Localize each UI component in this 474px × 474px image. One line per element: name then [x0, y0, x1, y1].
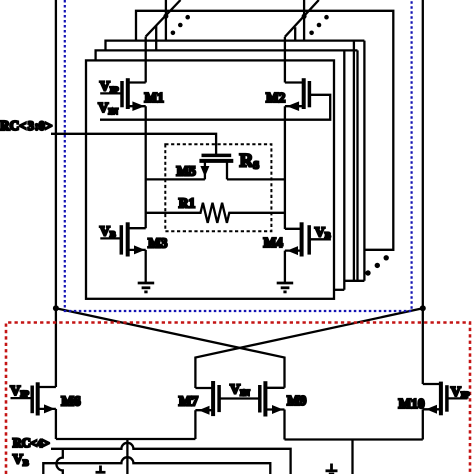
- wire M9 source down: [283, 410, 285, 440]
- node right bus junction: [302, 14, 307, 19]
- wire M10 source stub: [423, 408, 443, 410]
- wire M3 gate lead (VB): [100, 237, 121, 239]
- wire M4 drain stub: [285, 228, 303, 230]
- wire M5 right link: [227, 178, 285, 180]
- resistor R1: [146, 203, 285, 223]
- partial device stub left (cut off): [96, 466, 106, 473]
- transistor M2 gate bar: [308, 81, 312, 107]
- wire bus diagonal right: [285, 0, 319, 37]
- transistor M6 gate bar: [30, 386, 34, 414]
- svg-text:VIP: VIP: [451, 385, 470, 400]
- wire M2 source vertical (right degeneration node): [284, 106, 286, 229]
- wire M3 source stub: [126, 249, 146, 251]
- arrow M2 source: [287, 101, 299, 111]
- wire M2 drain stub: [285, 81, 305, 83]
- dashed selector box (M5/Rs): [165, 144, 271, 231]
- transistor M9 gate bar: [258, 385, 262, 413]
- transistor M5 channel bar: [199, 159, 233, 163]
- wire box3 left output stub: [165, 0, 167, 41]
- svg-text:M3: M3: [148, 236, 168, 251]
- svg-text:M6: M6: [61, 393, 81, 408]
- node left bus junction: [163, 14, 168, 19]
- arrow M4 source: [287, 246, 298, 255]
- wire M1 drain stub: [127, 81, 146, 83]
- wire VB bus (hops over tail1): [43, 457, 270, 474]
- wire tail link M6-M7 sources: [56, 438, 196, 440]
- transistor M10 channel bar: [439, 382, 443, 416]
- wire tail link M9-M10 sources: [285, 438, 423, 440]
- wire M9 drain stub: [264, 387, 285, 389]
- wire RC<4> branch with hop over VB: [56, 449, 62, 474]
- fixed-stage boundary (red dotted box): [6, 323, 470, 474]
- arrow M7 source: [199, 406, 210, 415]
- wire M10 source down: [422, 409, 424, 439]
- wire M5 left link: [146, 178, 205, 180]
- arrow M1 source: [132, 101, 144, 111]
- transistor M3 gate bar: [120, 225, 124, 254]
- ellipsis dots upper-left: [171, 15, 190, 35]
- arrow M6 source: [44, 404, 55, 413]
- node right rail junction: [420, 305, 426, 311]
- wire M2 drain vertical: [284, 37, 286, 83]
- transistor M7 gate bar: [217, 385, 221, 412]
- wire M3 drain stub: [126, 227, 146, 229]
- svg-text:VIP: VIP: [10, 384, 29, 399]
- wire M7 source stub: [195, 409, 214, 411]
- svg-text:M9: M9: [287, 393, 307, 408]
- wire box2 left output stub: [155, 26, 157, 51]
- unit cell box 3 output rail B: [363, 41, 365, 281]
- wire M1 source stub: [127, 105, 146, 107]
- arrow M5 (down): [200, 166, 209, 177]
- wire tail1 vertical: [126, 439, 128, 474]
- transistor M4 channel bar: [300, 222, 304, 256]
- wire tail2 vertical: [351, 440, 353, 474]
- svg-text:VB: VB: [100, 224, 116, 239]
- wire M4 source to ground: [284, 251, 286, 283]
- transistor M1 channel bar: [126, 78, 130, 109]
- wire M5 left terminal: [204, 161, 206, 180]
- transistor M10 gate bar: [445, 385, 449, 412]
- svg-text:M4: M4: [264, 235, 284, 250]
- unit cell box 1 (front cell): [86, 60, 334, 298]
- node left rail junction: [53, 305, 59, 311]
- wire M6 source stub: [36, 408, 56, 410]
- unit cell box 3 top/left: [106, 41, 365, 51]
- wire RC<4> bus (hops over tail1): [51, 443, 291, 474]
- svg-text:RC<4>: RC<4>: [13, 436, 50, 450]
- transistor M2 channel bar: [302, 78, 306, 109]
- unit cell box 2 right edge: [343, 50, 345, 289]
- wire box3 right output stub: [303, 0, 305, 41]
- partial device stub right (cut off): [326, 464, 338, 474]
- transistor M9 channel bar: [263, 381, 267, 416]
- wire M7 drain stub: [195, 387, 214, 389]
- unit cell box 3 bottom edge: [344, 280, 364, 282]
- arrow M10 source: [426, 405, 437, 414]
- wire cross-couple diagonal left-rail to M9 drain: [56, 308, 285, 388]
- wire M1 source vertical (left degeneration node): [145, 106, 147, 228]
- ground (M3): [138, 283, 155, 292]
- transistor M4 gate bar: [307, 225, 311, 254]
- arrow M3 source: [134, 245, 145, 254]
- svg-text:VIN: VIN: [230, 383, 250, 398]
- wire M2 source stub: [285, 105, 305, 107]
- wire M9 source stub: [264, 408, 285, 410]
- transistor M7 channel bar: [211, 381, 215, 416]
- wire M5 right terminal: [226, 161, 228, 180]
- unit cell box 4 (backmost, Nth cell): [136, 11, 393, 250]
- wire left output rail: [55, 0, 57, 387]
- svg-text:M2: M2: [266, 90, 286, 105]
- svg-text:M7: M7: [179, 393, 199, 408]
- ground (M4): [277, 283, 294, 292]
- transistor M1 gate bar: [120, 81, 124, 107]
- unit cell box 2 bottom edge: [334, 289, 344, 291]
- ellipsis dots lower-right of box stack: [365, 255, 389, 276]
- cell-array boundary (blue dotted box): [65, 0, 412, 311]
- transistor M5 gate bar: [202, 154, 232, 158]
- transistor M6 channel bar: [36, 382, 40, 415]
- svg-text:RC<3:0>: RC<3:0>: [0, 118, 52, 133]
- wire M10 drain stub: [423, 383, 443, 385]
- wire cross-couple diagonal right-rail to M7 drain: [195, 308, 422, 388]
- wire M4 source stub: [285, 249, 303, 251]
- wire bus diagonal left (cell outputs to array): [146, 0, 181, 37]
- wire M7 source down: [194, 410, 196, 439]
- unit cell box 2 top/left: [96, 50, 358, 60]
- wire RC<3:0> bus to M5 gate: [51, 134, 216, 156]
- svg-text:VB: VB: [315, 225, 331, 240]
- svg-text:RS: RS: [240, 151, 260, 172]
- wire M3 source to ground: [145, 250, 147, 283]
- ellipsis dots upper-right: [309, 15, 329, 35]
- svg-text:M5: M5: [177, 164, 197, 179]
- svg-text:VIN: VIN: [98, 101, 118, 116]
- wire box2 right output stub: [294, 27, 296, 40]
- wire M1 gate lead (VIP): [100, 92, 122, 94]
- wire M1 drain vertical: [145, 37, 147, 83]
- svg-text:R1: R1: [179, 195, 195, 210]
- unit cell box 3 right edge: [353, 41, 355, 281]
- wire M10 gate lead (VIP): [447, 397, 468, 399]
- transistor M3 channel bar: [126, 222, 130, 256]
- svg-text:VIP: VIP: [100, 80, 119, 95]
- wire M6 gate lead (VIP): [11, 397, 33, 399]
- wire M6 source down: [55, 409, 57, 439]
- svg-text:M10: M10: [399, 396, 425, 411]
- wire VIN line to M2 gate: [100, 95, 330, 120]
- wire right output rail: [422, 0, 424, 384]
- wire M4 gate lead (VB): [309, 238, 331, 240]
- wire VIN link M7-M9 gates: [219, 397, 260, 399]
- svg-text:VB: VB: [13, 452, 29, 467]
- unit cell box 2 output rail A: [356, 50, 358, 280]
- wire M6 drain stub: [36, 386, 56, 388]
- svg-text:M1: M1: [145, 90, 164, 105]
- arrow M9 source: [272, 405, 283, 414]
